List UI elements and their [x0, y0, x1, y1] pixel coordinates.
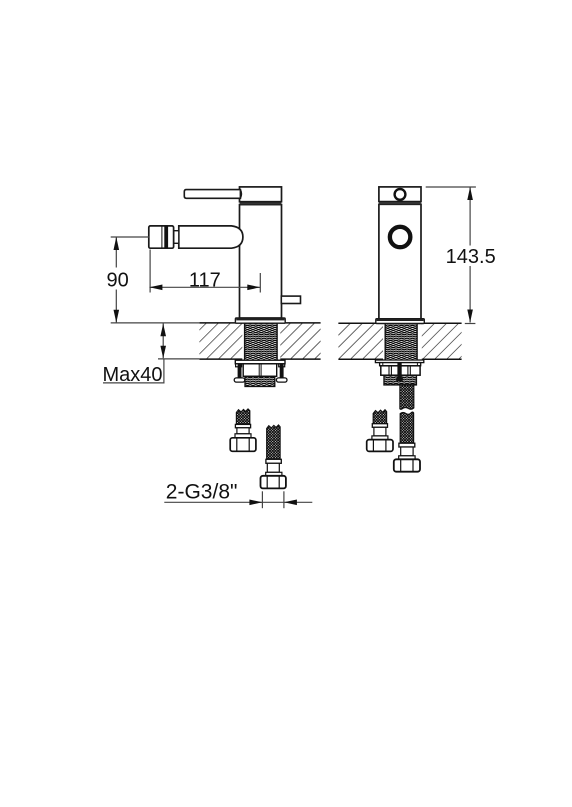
base flange (right view) — [376, 319, 425, 324]
svg-text:2-G3/8": 2-G3/8" — [166, 481, 238, 504]
short hose ring (right view) — [372, 436, 388, 440]
threaded shank (left view) — [245, 323, 278, 360]
valve divider — [258, 364, 260, 377]
faucet body (right view) — [379, 204, 421, 319]
washer band (right view) — [380, 363, 421, 366]
central stud (right view) — [397, 363, 401, 379]
hose lower segment (right view) — [400, 412, 413, 443]
long hose braid (left view) — [267, 425, 280, 459]
left stud — [238, 364, 242, 379]
counter hole (right view) — [383, 322, 422, 361]
washer band ticks — [382, 363, 384, 366]
dim 90 arrows — [114, 237, 120, 250]
hose bundle braid block — [245, 376, 275, 386]
lever junction arc — [240, 190, 241, 199]
short hose braid (right view) — [373, 410, 386, 424]
2-G3/8 dim line — [164, 501, 312, 503]
right stud foot — [276, 378, 287, 382]
long hose fitting — [267, 463, 279, 472]
top cap (right view) — [379, 187, 421, 202]
aerator thin line — [161, 226, 163, 248]
dim 90 line — [115, 237, 117, 323]
short hose nut (right view) — [367, 440, 393, 452]
aerator dark band — [164, 226, 168, 248]
short hose fitting — [237, 428, 249, 434]
dim 143.5 extension bottom — [465, 323, 476, 325]
cap screw circle — [395, 189, 406, 200]
short hose fitting (right view) — [374, 427, 386, 436]
top cap (left view) — [240, 187, 282, 202]
dim 117 line — [149, 286, 260, 288]
svg-text:Max40: Max40 — [103, 364, 163, 386]
cap joint dark band (right view) — [379, 203, 421, 205]
2-G3/8 arrows — [249, 500, 262, 506]
washer left tab — [236, 364, 242, 367]
short hose collar (right view) — [372, 424, 387, 428]
2-G3/8 tick right — [283, 491, 285, 508]
pop-up tab — [281, 296, 300, 303]
short hose collar — [235, 424, 250, 427]
dim 143.5 arrows — [467, 187, 473, 200]
svg-text:143.5: 143.5 — [446, 246, 496, 268]
dim 143.5 extension top — [426, 186, 476, 188]
dim 117 tick right — [259, 273, 261, 293]
base flange (left view) — [235, 318, 285, 323]
main hose fitting — [401, 447, 413, 456]
Max40 dim line — [162, 324, 164, 359]
Max40 counter-bottom extension — [158, 358, 199, 360]
left stud foot — [234, 378, 245, 382]
short hose braid (left view) — [236, 409, 249, 424]
dim 143.5 text bg — [444, 246, 498, 267]
spout outlet ring — [388, 225, 412, 249]
Max40 leader — [163, 359, 165, 383]
long hose collar — [266, 459, 281, 463]
aerator — [149, 226, 174, 248]
long hose nut — [261, 476, 286, 489]
cap joint dark band (left view) — [240, 203, 282, 205]
dim 90 extension line top — [111, 236, 150, 238]
short hose nut — [230, 438, 256, 452]
mounting washer (right view) — [375, 360, 423, 363]
main hose ring — [399, 456, 415, 460]
knurled collar (right view) — [384, 375, 416, 385]
mounting nut (right view) — [381, 366, 420, 375]
counter hatch right view — [338, 323, 461, 359]
washer right tab — [279, 364, 285, 367]
short hose ring — [235, 434, 251, 438]
dim 117 extension left — [149, 250, 151, 293]
counter hole (left view) — [242, 322, 280, 361]
spout — [179, 226, 243, 248]
main hose collar — [399, 443, 415, 447]
central stud foot — [396, 378, 403, 381]
mounting washer (left view) — [235, 360, 285, 364]
valve ports body — [243, 364, 277, 377]
long hose ring — [266, 472, 282, 476]
main hose nut — [394, 459, 420, 471]
counter hatch left view — [199, 323, 320, 359]
hose upper segment (right view) — [400, 385, 414, 409]
threaded shank (right view) — [385, 324, 417, 360]
lever handle — [184, 190, 240, 199]
Max40 counter-top extension — [111, 322, 200, 324]
right stud — [280, 364, 284, 379]
faucet body (left view) — [240, 205, 282, 319]
svg-text:90: 90 — [106, 270, 128, 292]
aerator neck — [174, 231, 179, 244]
dim 90 text bg — [103, 268, 132, 290]
svg-text:117: 117 — [189, 269, 221, 291]
Max40 arrows — [160, 324, 166, 337]
Max40 underline — [103, 382, 165, 384]
dim 117 arrows — [149, 285, 162, 291]
2-G3/8 tick left — [261, 491, 263, 508]
dim 143.5 line — [469, 187, 471, 323]
